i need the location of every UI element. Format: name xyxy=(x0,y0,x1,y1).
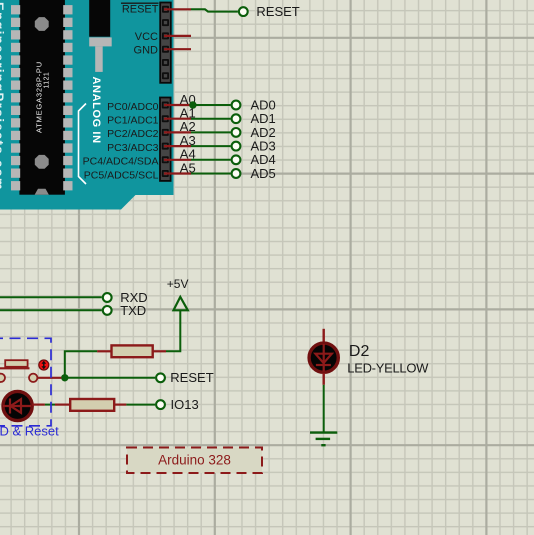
svg-text:EngineeringProjects.com: EngineeringProjects.com xyxy=(0,2,7,191)
svg-text:D & Reset: D & Reset xyxy=(0,424,59,439)
push button cap xyxy=(5,360,27,367)
terminal AD1 xyxy=(232,114,241,123)
LED D2 symbol xyxy=(323,344,325,372)
svg-text:+5V: +5V xyxy=(167,277,189,291)
svg-text:PC3/ADC3: PC3/ADC3 xyxy=(107,142,159,154)
resistor R1 lead right xyxy=(153,350,166,352)
wire RESET header to terminal xyxy=(191,9,238,11)
wire R1 to reset node xyxy=(65,351,97,378)
terminal RESET (bottom) xyxy=(156,373,165,382)
svg-text:PC5/ADC5/SCL: PC5/ADC5/SCL xyxy=(84,169,159,181)
header J1 (RESET/VCC/GND) xyxy=(160,3,171,83)
terminal AD4 xyxy=(232,155,241,164)
IC pin-1 dimple octagon top xyxy=(35,17,49,31)
ground symbol xyxy=(310,431,337,433)
svg-text:IO13: IO13 xyxy=(171,397,199,412)
push button pin left xyxy=(0,374,5,382)
LED D2 top stub xyxy=(323,329,325,343)
wire A3 to terminal xyxy=(191,145,231,147)
pin stub VCC xyxy=(164,35,191,37)
wire +5V down xyxy=(166,310,180,351)
svg-text:Arduino 328: Arduino 328 xyxy=(158,452,231,467)
svg-text:PC0/ADC0: PC0/ADC0 xyxy=(107,101,159,113)
terminal RXD xyxy=(103,293,112,302)
LED D1 circle xyxy=(3,391,32,420)
terminal RESET (top) xyxy=(239,7,248,16)
svg-text:GND: GND xyxy=(134,44,159,56)
svg-text:AD5: AD5 xyxy=(251,166,276,181)
wire A1 to terminal xyxy=(191,118,231,120)
resistor R2 lead right xyxy=(114,404,126,406)
wire R2 to IO13 xyxy=(126,404,155,406)
wire RXD xyxy=(0,296,102,298)
header J2 (analog pins) xyxy=(160,98,171,181)
pin stub A1 xyxy=(164,118,191,120)
resistor R1 body xyxy=(112,345,153,357)
svg-text:LED-YELLOW: LED-YELLOW xyxy=(347,360,429,375)
svg-text:RESET: RESET xyxy=(256,4,299,19)
svg-text:TXD: TXD xyxy=(120,303,146,318)
wire TXD xyxy=(0,309,102,311)
LED D1 symbol xyxy=(3,405,31,407)
wire A0 to terminal xyxy=(191,104,231,106)
pin stub A5 xyxy=(164,172,191,174)
svg-text:ANALOG IN: ANALOG IN xyxy=(90,77,102,144)
IC U1 pins xyxy=(11,5,20,14)
pin stub RESET xyxy=(164,8,191,10)
wire LED to R2 xyxy=(32,404,45,406)
IC dimple octagon bottom xyxy=(35,155,49,169)
wire button to node xyxy=(37,377,61,379)
push button pin right xyxy=(29,374,37,382)
junction node A0 xyxy=(189,101,196,108)
junction node RESET xyxy=(61,374,68,381)
svg-text:A5: A5 xyxy=(180,160,196,175)
resistor R2 body xyxy=(70,399,114,411)
silkscreen bracket xyxy=(79,104,87,185)
svg-text:PC4/ADC4/SDA: PC4/ADC4/SDA xyxy=(83,156,159,168)
Arduino board body (teal PCB) xyxy=(0,0,174,210)
capacitor graphic gray T lead xyxy=(89,37,112,46)
svg-text:PC2/ADC2: PC2/ADC2 xyxy=(107,128,159,140)
svg-text:RESET: RESET xyxy=(170,370,213,385)
wire A2 to terminal xyxy=(191,131,231,133)
wire node to RESET terminal xyxy=(65,377,155,379)
terminal AD5 xyxy=(232,169,241,178)
pin stub GND xyxy=(164,48,191,50)
pin stub A3 xyxy=(164,145,191,147)
terminal AD0 xyxy=(232,101,241,110)
wire A4 to terminal xyxy=(191,159,231,161)
wire D2 to ground xyxy=(323,385,325,433)
IC orientation notch xyxy=(35,189,49,195)
power +5V arrow xyxy=(174,297,188,310)
pin stub A4 xyxy=(164,159,191,161)
selection box (blue dashed) xyxy=(0,338,51,426)
Arduino 328 box xyxy=(127,448,262,474)
terminal TXD xyxy=(103,306,112,315)
svg-text:ATMEGA328P-PU: ATMEGA328P-PU xyxy=(34,61,43,133)
svg-text:RESET: RESET xyxy=(122,4,159,16)
pin stub A2 xyxy=(164,131,191,133)
terminal IO13 xyxy=(156,400,165,409)
LED D2 circle xyxy=(309,343,338,372)
push button legs xyxy=(0,367,30,369)
resistor R1 lead left xyxy=(97,350,111,352)
capacitor graphic black body xyxy=(89,0,110,37)
svg-text:1121: 1121 xyxy=(44,72,51,89)
button actuator icon xyxy=(39,360,49,370)
terminal AD3 xyxy=(232,142,241,151)
svg-text:PC1/ADC1: PC1/ADC1 xyxy=(107,115,159,127)
wire A5 to terminal xyxy=(191,173,231,175)
IC U1 ATMEGA328P-PU body xyxy=(19,0,65,195)
LED D2 bottom stub xyxy=(323,373,325,385)
pin stub A0 xyxy=(164,104,193,106)
terminal AD2 xyxy=(232,128,241,137)
svg-text:VCC: VCC xyxy=(135,31,158,43)
svg-text:D2: D2 xyxy=(349,343,370,360)
